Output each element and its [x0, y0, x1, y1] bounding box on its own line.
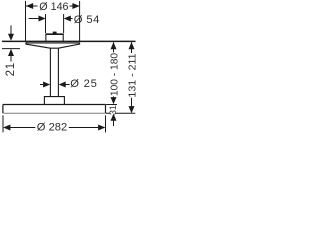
svg-text:Ø 282: Ø 282 [37, 122, 67, 134]
svg-text:100 - 180: 100 - 180 [109, 53, 121, 96]
svg-text:Ø 25: Ø 25 [70, 78, 97, 90]
svg-text:31: 31 [108, 105, 118, 115]
svg-text:21: 21 [5, 63, 17, 77]
svg-text:Ø 54: Ø 54 [74, 14, 100, 26]
svg-text:131 - 211: 131 - 211 [127, 53, 139, 97]
svg-text:Ø 146: Ø 146 [39, 1, 68, 13]
